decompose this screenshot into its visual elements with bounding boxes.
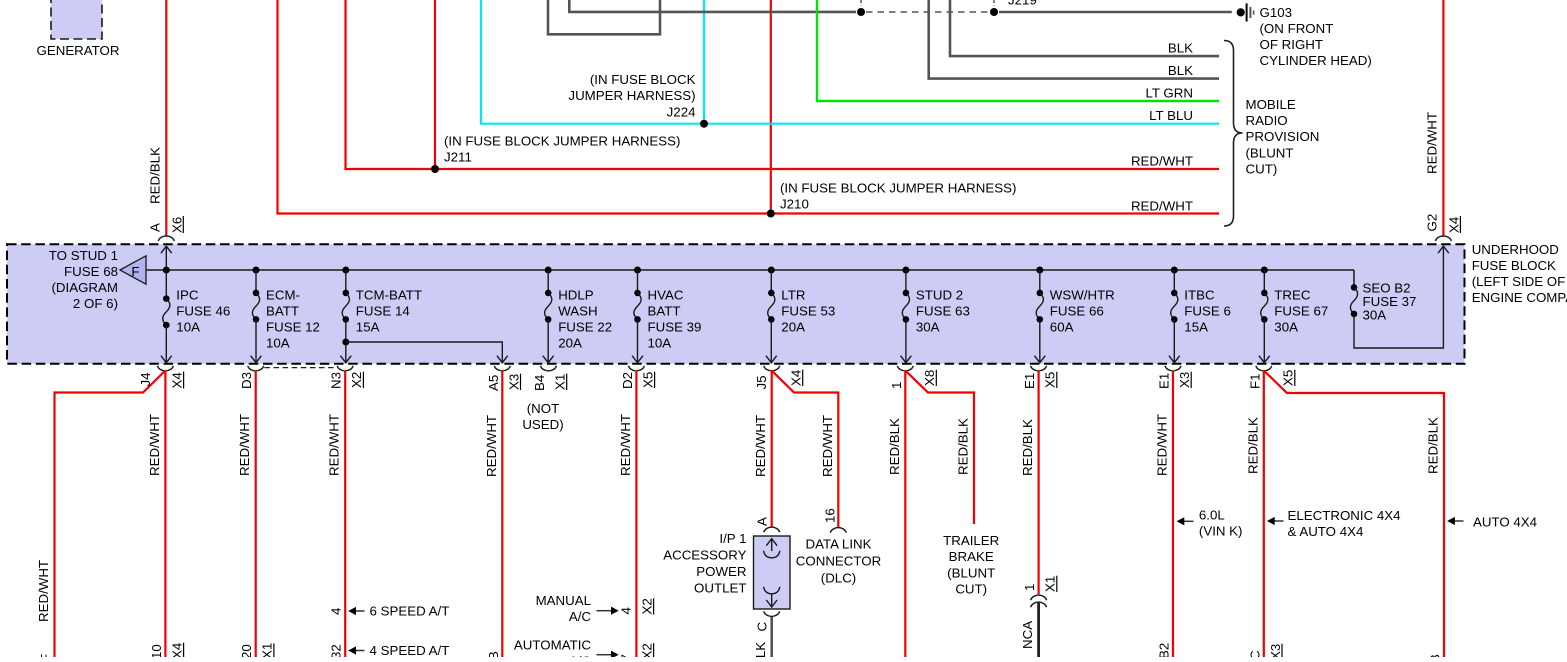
- wire RED/WHT ecm: [255, 371, 257, 658]
- wire BLK upper: [950, 0, 1219, 56]
- svg-text:ELECTRONIC 4X4: ELECTRONIC 4X4: [1288, 508, 1401, 523]
- svg-text:CYLINDER HEAD): CYLINDER HEAD): [1260, 53, 1372, 68]
- connector cap X6: [158, 236, 174, 241]
- wire RED/WHT tcm: [344, 371, 346, 658]
- svg-text:FUSE 46: FUSE 46: [176, 304, 230, 319]
- svg-text:FUSE BLOCK: FUSE BLOCK: [1472, 258, 1556, 273]
- svg-text:32: 32: [329, 644, 344, 657]
- svg-text:RADIO: RADIO: [1246, 113, 1288, 128]
- svg-text:A/C: A/C: [569, 609, 592, 624]
- svg-text:X2: X2: [639, 643, 654, 657]
- wire RED/WHT hvac: [635, 371, 637, 658]
- wire RED/WHT ipc straight: [164, 371, 166, 658]
- exit connector D2/X5: [628, 366, 644, 371]
- svg-text:MOBILE: MOBILE: [1246, 97, 1296, 112]
- svg-text:RED/BLK: RED/BLK: [887, 418, 902, 475]
- svg-text:RED/WHT: RED/WHT: [1425, 112, 1440, 174]
- svg-text:X1: X1: [1043, 576, 1058, 592]
- svg-text:OUTLET: OUTLET: [694, 581, 746, 596]
- wire TCM branch to A5: [346, 342, 508, 363]
- svg-text:POWER: POWER: [696, 564, 746, 579]
- wire RED/BLK stud2 straight: [904, 371, 906, 658]
- fuse F12 ECM-BATT: [251, 267, 320, 363]
- svg-text:RED/BLK: RED/BLK: [148, 147, 163, 204]
- svg-text:HDLP: HDLP: [558, 288, 594, 303]
- svg-text:PROVISION: PROVISION: [1246, 129, 1320, 144]
- svg-text:(IN FUSE BLOCK JUMPER HARNESS): (IN FUSE BLOCK JUMPER HARNESS): [780, 181, 1016, 196]
- exit connector E1/X3: [1165, 366, 1181, 371]
- svg-text:J210: J210: [780, 197, 809, 212]
- wire RED/BLK trec branch auto4x4: [1264, 371, 1444, 658]
- wire red to J211: [346, 0, 436, 169]
- svg-text:F1: F1: [1247, 373, 1262, 389]
- svg-text:6.0L: 6.0L: [1199, 507, 1225, 522]
- fuse F63 STUD 2: [901, 267, 970, 363]
- svg-text:DATA LINK: DATA LINK: [805, 537, 871, 552]
- svg-text:15A: 15A: [356, 320, 380, 335]
- svg-text:FUSE 14: FUSE 14: [356, 304, 410, 319]
- svg-text:1: 1: [889, 382, 904, 389]
- arrow automatic ac: [597, 651, 619, 659]
- svg-text:OF RIGHT: OF RIGHT: [1260, 37, 1324, 52]
- svg-text:X5: X5: [640, 372, 655, 388]
- inline connector caps: [1031, 595, 1047, 600]
- svg-text:G103: G103: [1260, 5, 1293, 20]
- svg-text:(IN FUSE BLOCK JUMPER HARNESS): (IN FUSE BLOCK JUMPER HARNESS): [444, 134, 680, 149]
- svg-text:J5: J5: [754, 375, 769, 389]
- wire red drop to J211 splice: [434, 0, 436, 169]
- svg-text:BATT: BATT: [648, 304, 681, 319]
- wire RED/BLK trec straight: [1263, 371, 1265, 658]
- connector cap dlc: [830, 528, 846, 533]
- svg-text:X2: X2: [639, 598, 654, 614]
- svg-text:1: 1: [1022, 584, 1037, 591]
- svg-text:30A: 30A: [1363, 308, 1387, 323]
- wire cyan drop to J224: [703, 0, 705, 124]
- svg-text:RED/WHT: RED/WHT: [327, 414, 342, 476]
- svg-text:FUSE 66: FUSE 66: [1050, 304, 1104, 319]
- outlet top contact: [764, 539, 780, 558]
- exit connector A5/X3: [494, 366, 510, 371]
- bus wire: [146, 269, 1354, 271]
- svg-text:RED/BLK: RED/BLK: [956, 418, 971, 475]
- svg-text:16: 16: [822, 508, 837, 523]
- wire bus to SEO B2: [1353, 270, 1355, 287]
- svg-text:BRAKE: BRAKE: [949, 549, 994, 564]
- fuse F46 IPC: [161, 270, 230, 363]
- wire RED/BLK trailer brake branch: [905, 371, 974, 525]
- svg-text:X3: X3: [1177, 372, 1192, 388]
- wire BLK outlet ground: [770, 617, 773, 657]
- svg-text:WASH: WASH: [558, 304, 597, 319]
- svg-text:X8: X8: [922, 370, 937, 386]
- wire RED/WHT J210 to blunt cut: [771, 212, 1219, 214]
- svg-text:(NOT: (NOT: [527, 401, 560, 416]
- arrow 6.0L: [1177, 517, 1194, 525]
- svg-text:& AUTO 4X4: & AUTO 4X4: [1288, 524, 1364, 539]
- svg-text:A: A: [755, 517, 770, 526]
- svg-text:A/C: A/C: [569, 653, 592, 657]
- svg-text:60A: 60A: [1050, 320, 1074, 335]
- svg-text:STUD 2: STUD 2: [916, 288, 963, 303]
- svg-text:IPC: IPC: [176, 288, 199, 303]
- svg-text:BATT: BATT: [266, 304, 299, 319]
- fuse F37 SEO B2: [1350, 281, 1416, 323]
- svg-text:UNDERHOOD: UNDERHOOD: [1472, 242, 1559, 257]
- svg-text:AUTO 4X4: AUTO 4X4: [1473, 515, 1537, 530]
- wire LT GRN: [817, 0, 1219, 101]
- svg-text:RED/WHT: RED/WHT: [237, 414, 252, 476]
- svg-text:30A: 30A: [916, 320, 940, 335]
- svg-text:FUSE 12: FUSE 12: [266, 320, 320, 335]
- ground G103 symbol: [1237, 3, 1254, 21]
- outlet bottom contact: [764, 587, 780, 607]
- svg-text:X5: X5: [1281, 370, 1296, 386]
- wire RED/WHT ltr straight: [771, 371, 773, 528]
- svg-text:B2: B2: [1157, 643, 1172, 657]
- svg-text:(ON FRONT: (ON FRONT: [1260, 21, 1334, 36]
- svg-text:D2: D2: [620, 372, 635, 389]
- fuse F22 HDLP WASH: [543, 267, 612, 363]
- svg-text:NCA: NCA: [1020, 621, 1035, 649]
- svg-text:CONNECTOR: CONNECTOR: [796, 554, 881, 569]
- svg-text:(DIAGRAM: (DIAGRAM: [52, 280, 119, 295]
- svg-text:(LEFT SIDE OF: (LEFT SIDE OF: [1472, 274, 1566, 289]
- svg-text:20A: 20A: [558, 336, 582, 351]
- svg-text:A: A: [147, 223, 162, 232]
- arrow electronic 4x4: [1267, 517, 1284, 525]
- arrow 4 speed: [348, 646, 364, 654]
- svg-text:X6: X6: [170, 217, 185, 233]
- svg-text:FUSE 6: FUSE 6: [1184, 304, 1231, 319]
- svg-text:X4: X4: [169, 643, 184, 657]
- svg-text:FUSE 39: FUSE 39: [648, 320, 702, 335]
- svg-text:X5: X5: [1043, 372, 1058, 388]
- svg-text:4 SPEED A/T: 4 SPEED A/T: [370, 643, 450, 657]
- exit connector J4/X4: [157, 366, 173, 371]
- svg-text:RED/WHT: RED/WHT: [618, 414, 633, 476]
- svg-text:J219: J219: [1008, 0, 1037, 8]
- svg-text:FUSE 68: FUSE 68: [64, 264, 118, 279]
- exit connector D3: [248, 366, 264, 371]
- connector dashed link D3-N3: [264, 367, 336, 369]
- svg-text:C: C: [1247, 650, 1262, 657]
- wire LT BLU J224 to blunt cut: [704, 123, 1219, 125]
- wire RED/BLK generator output: [165, 0, 167, 237]
- splice J211: [431, 165, 439, 173]
- svg-text:C: C: [755, 622, 770, 632]
- svg-text:RED/WHT: RED/WHT: [36, 560, 51, 622]
- svg-text:B: B: [486, 651, 501, 657]
- fuse F66 WSW/HTR: [1034, 267, 1114, 363]
- wire RED/WHT tcm branch: [501, 371, 503, 658]
- svg-text:ITBC: ITBC: [1184, 288, 1215, 303]
- svg-text:MANUAL: MANUAL: [536, 593, 591, 608]
- svg-text:30A: 30A: [1274, 320, 1298, 335]
- svg-text:4: 4: [618, 607, 633, 614]
- svg-text:D3: D3: [239, 372, 254, 389]
- svg-text:B4: B4: [532, 375, 547, 391]
- svg-text:J224: J224: [667, 105, 696, 120]
- svg-text:(BLUNT: (BLUNT: [1246, 146, 1294, 161]
- svg-text:RED/WHT: RED/WHT: [820, 415, 835, 477]
- svg-text:HVAC: HVAC: [648, 288, 684, 303]
- svg-text:CUT): CUT): [955, 582, 987, 597]
- svg-text:X4: X4: [789, 370, 804, 386]
- wire red drop to J210 splice: [770, 0, 772, 214]
- svg-text:F: F: [131, 264, 139, 279]
- svg-text:J4: J4: [138, 372, 153, 386]
- splice dot on G103 line: [857, 8, 865, 16]
- svg-text:LT GRN: LT GRN: [1145, 86, 1193, 101]
- wire gray U-loop: [548, 0, 660, 34]
- svg-text:20A: 20A: [781, 320, 805, 335]
- splice J219: [990, 8, 998, 16]
- wire RED/WHT ltr branch dlc: [772, 371, 839, 528]
- generator box: [51, 0, 102, 39]
- svg-text:10: 10: [149, 644, 164, 657]
- svg-text:TO STUD 1: TO STUD 1: [49, 248, 118, 263]
- svg-text:LT BLU: LT BLU: [1149, 108, 1193, 123]
- dashed stub above J219: [993, 0, 995, 6]
- svg-text:RED/WHT: RED/WHT: [147, 414, 162, 476]
- wire BLK to ground G103: [999, 11, 1232, 14]
- svg-text:TCM-BATT: TCM-BATT: [356, 288, 422, 303]
- node bus/X6: [163, 267, 170, 274]
- connector cap outlet: [764, 527, 780, 532]
- exit connector J5/X4: [764, 366, 780, 371]
- dashed stub above splice: [860, 0, 862, 6]
- wire gray to G103: [569, 0, 856, 12]
- wire SEO B2 to right feed entry: [1354, 246, 1449, 348]
- wire NCA: [1037, 602, 1040, 657]
- connector cap G2/X4: [1435, 236, 1451, 241]
- svg-text:X3: X3: [1268, 644, 1283, 657]
- svg-text:BLK: BLK: [1168, 63, 1193, 78]
- svg-text:WSW/HTR: WSW/HTR: [1050, 288, 1115, 303]
- brace mobile radio provision: [1224, 41, 1243, 227]
- wire RED/WHT J211 to blunt cut: [435, 168, 1219, 170]
- wire RED/BLK wsw: [1037, 371, 1039, 595]
- exit connector B4/X1 not used: [541, 366, 557, 371]
- svg-text:N3: N3: [329, 372, 344, 389]
- svg-text:10A: 10A: [648, 336, 672, 351]
- splice J210: [767, 210, 775, 218]
- svg-text:6 SPEED A/T: 6 SPEED A/T: [370, 603, 450, 618]
- svg-text:I/P 1: I/P 1: [719, 531, 746, 546]
- fuse F14 TCM-BATT: [340, 267, 422, 363]
- svg-text:ECM-: ECM-: [266, 288, 300, 303]
- wire BLK lower: [929, 0, 1219, 79]
- fuse block box: [7, 244, 1465, 363]
- wire cyan LT BLU corner: [481, 0, 704, 124]
- svg-text:AUTOMATIC: AUTOMATIC: [514, 637, 591, 652]
- svg-text:RED/BLK: RED/BLK: [1426, 417, 1441, 474]
- svg-text:10A: 10A: [266, 336, 290, 351]
- svg-text:(DLC): (DLC): [821, 571, 856, 586]
- splice J224: [700, 120, 708, 128]
- svg-text:X1: X1: [553, 374, 568, 390]
- svg-text:X4: X4: [169, 372, 184, 388]
- svg-text:(IN FUSE BLOCK: (IN FUSE BLOCK: [590, 72, 696, 87]
- svg-text:JUMPER HARNESS): JUMPER HARNESS): [568, 88, 695, 103]
- svg-text:USED): USED): [522, 417, 563, 432]
- wire RED/WHT ipc branch left: [55, 371, 166, 658]
- svg-text:10A: 10A: [176, 320, 200, 335]
- svg-text:RED/WHT: RED/WHT: [484, 415, 499, 477]
- node TCM branch: [342, 339, 349, 346]
- svg-text:FUSE 53: FUSE 53: [781, 304, 835, 319]
- svg-text:LTR: LTR: [781, 288, 805, 303]
- arrow auto 4x4: [1447, 517, 1463, 525]
- exit connector F1/X5: [1256, 366, 1272, 371]
- fuse F39 HVAC BATT: [632, 267, 701, 363]
- connector cup outlet bottom: [764, 611, 780, 616]
- svg-text:FUSE 22: FUSE 22: [558, 320, 612, 335]
- exit connector N3/X2: [337, 366, 353, 371]
- svg-text:BLK: BLK: [753, 642, 768, 657]
- svg-text:15A: 15A: [1184, 320, 1208, 335]
- svg-text:TRAILER: TRAILER: [943, 533, 999, 548]
- svg-text:X3: X3: [506, 374, 521, 390]
- svg-text:RED/WHT: RED/WHT: [753, 415, 768, 477]
- svg-text:FUSE 63: FUSE 63: [916, 304, 970, 319]
- svg-text:RED/WHT: RED/WHT: [1131, 199, 1193, 214]
- svg-text:A5: A5: [486, 375, 501, 391]
- svg-text:20: 20: [239, 644, 254, 657]
- svg-text:GENERATOR: GENERATOR: [37, 43, 120, 58]
- fuse F6 ITBC: [1169, 267, 1231, 363]
- dashed wire segment: [866, 11, 988, 13]
- svg-text:RED/BLK: RED/BLK: [1245, 417, 1260, 474]
- svg-text:ACCESSORY: ACCESSORY: [663, 548, 746, 563]
- svg-text:E1: E1: [1022, 373, 1037, 389]
- arrow 6 speed: [348, 607, 364, 615]
- svg-text:X2: X2: [349, 372, 364, 388]
- svg-text:4: 4: [329, 608, 344, 615]
- fuse F53 LTR: [766, 267, 835, 363]
- svg-text:ENGINE COMPARTMENT): ENGINE COMPARTMENT): [1472, 290, 1567, 305]
- entry arrow X6 feed: [161, 246, 172, 270]
- svg-text:J211: J211: [444, 150, 472, 165]
- wire RED/WHT itbc: [1172, 371, 1174, 658]
- svg-text:(BLUNT: (BLUNT: [947, 566, 995, 581]
- wire red to J210: [278, 0, 772, 214]
- fuse F67 TREC: [1259, 267, 1328, 363]
- svg-text:CUT): CUT): [1246, 162, 1278, 177]
- svg-text:E1: E1: [1157, 373, 1172, 389]
- exit connector E1/X5: [1031, 366, 1047, 371]
- svg-text:(VIN K): (VIN K): [1199, 523, 1243, 538]
- accessory power outlet box: [754, 536, 791, 609]
- svg-text:2 OF 6): 2 OF 6): [73, 296, 118, 311]
- svg-text:BLK: BLK: [1168, 41, 1193, 56]
- exit connector 1/X8: [897, 366, 913, 371]
- svg-text:TREC: TREC: [1274, 288, 1311, 303]
- off-page arrow F: [120, 256, 146, 284]
- svg-text:X1: X1: [260, 643, 275, 657]
- svg-text:X4: X4: [1447, 217, 1462, 233]
- svg-text:G2: G2: [1424, 214, 1439, 232]
- wire RED/WHT right feed: [1442, 0, 1444, 237]
- svg-text:RED/BLK: RED/BLK: [1020, 419, 1035, 476]
- svg-text:RED/WHT: RED/WHT: [1155, 414, 1170, 476]
- arrow manual ac: [597, 607, 619, 615]
- svg-text:RED/WHT: RED/WHT: [1131, 154, 1193, 169]
- svg-text:FUSE 67: FUSE 67: [1274, 304, 1328, 319]
